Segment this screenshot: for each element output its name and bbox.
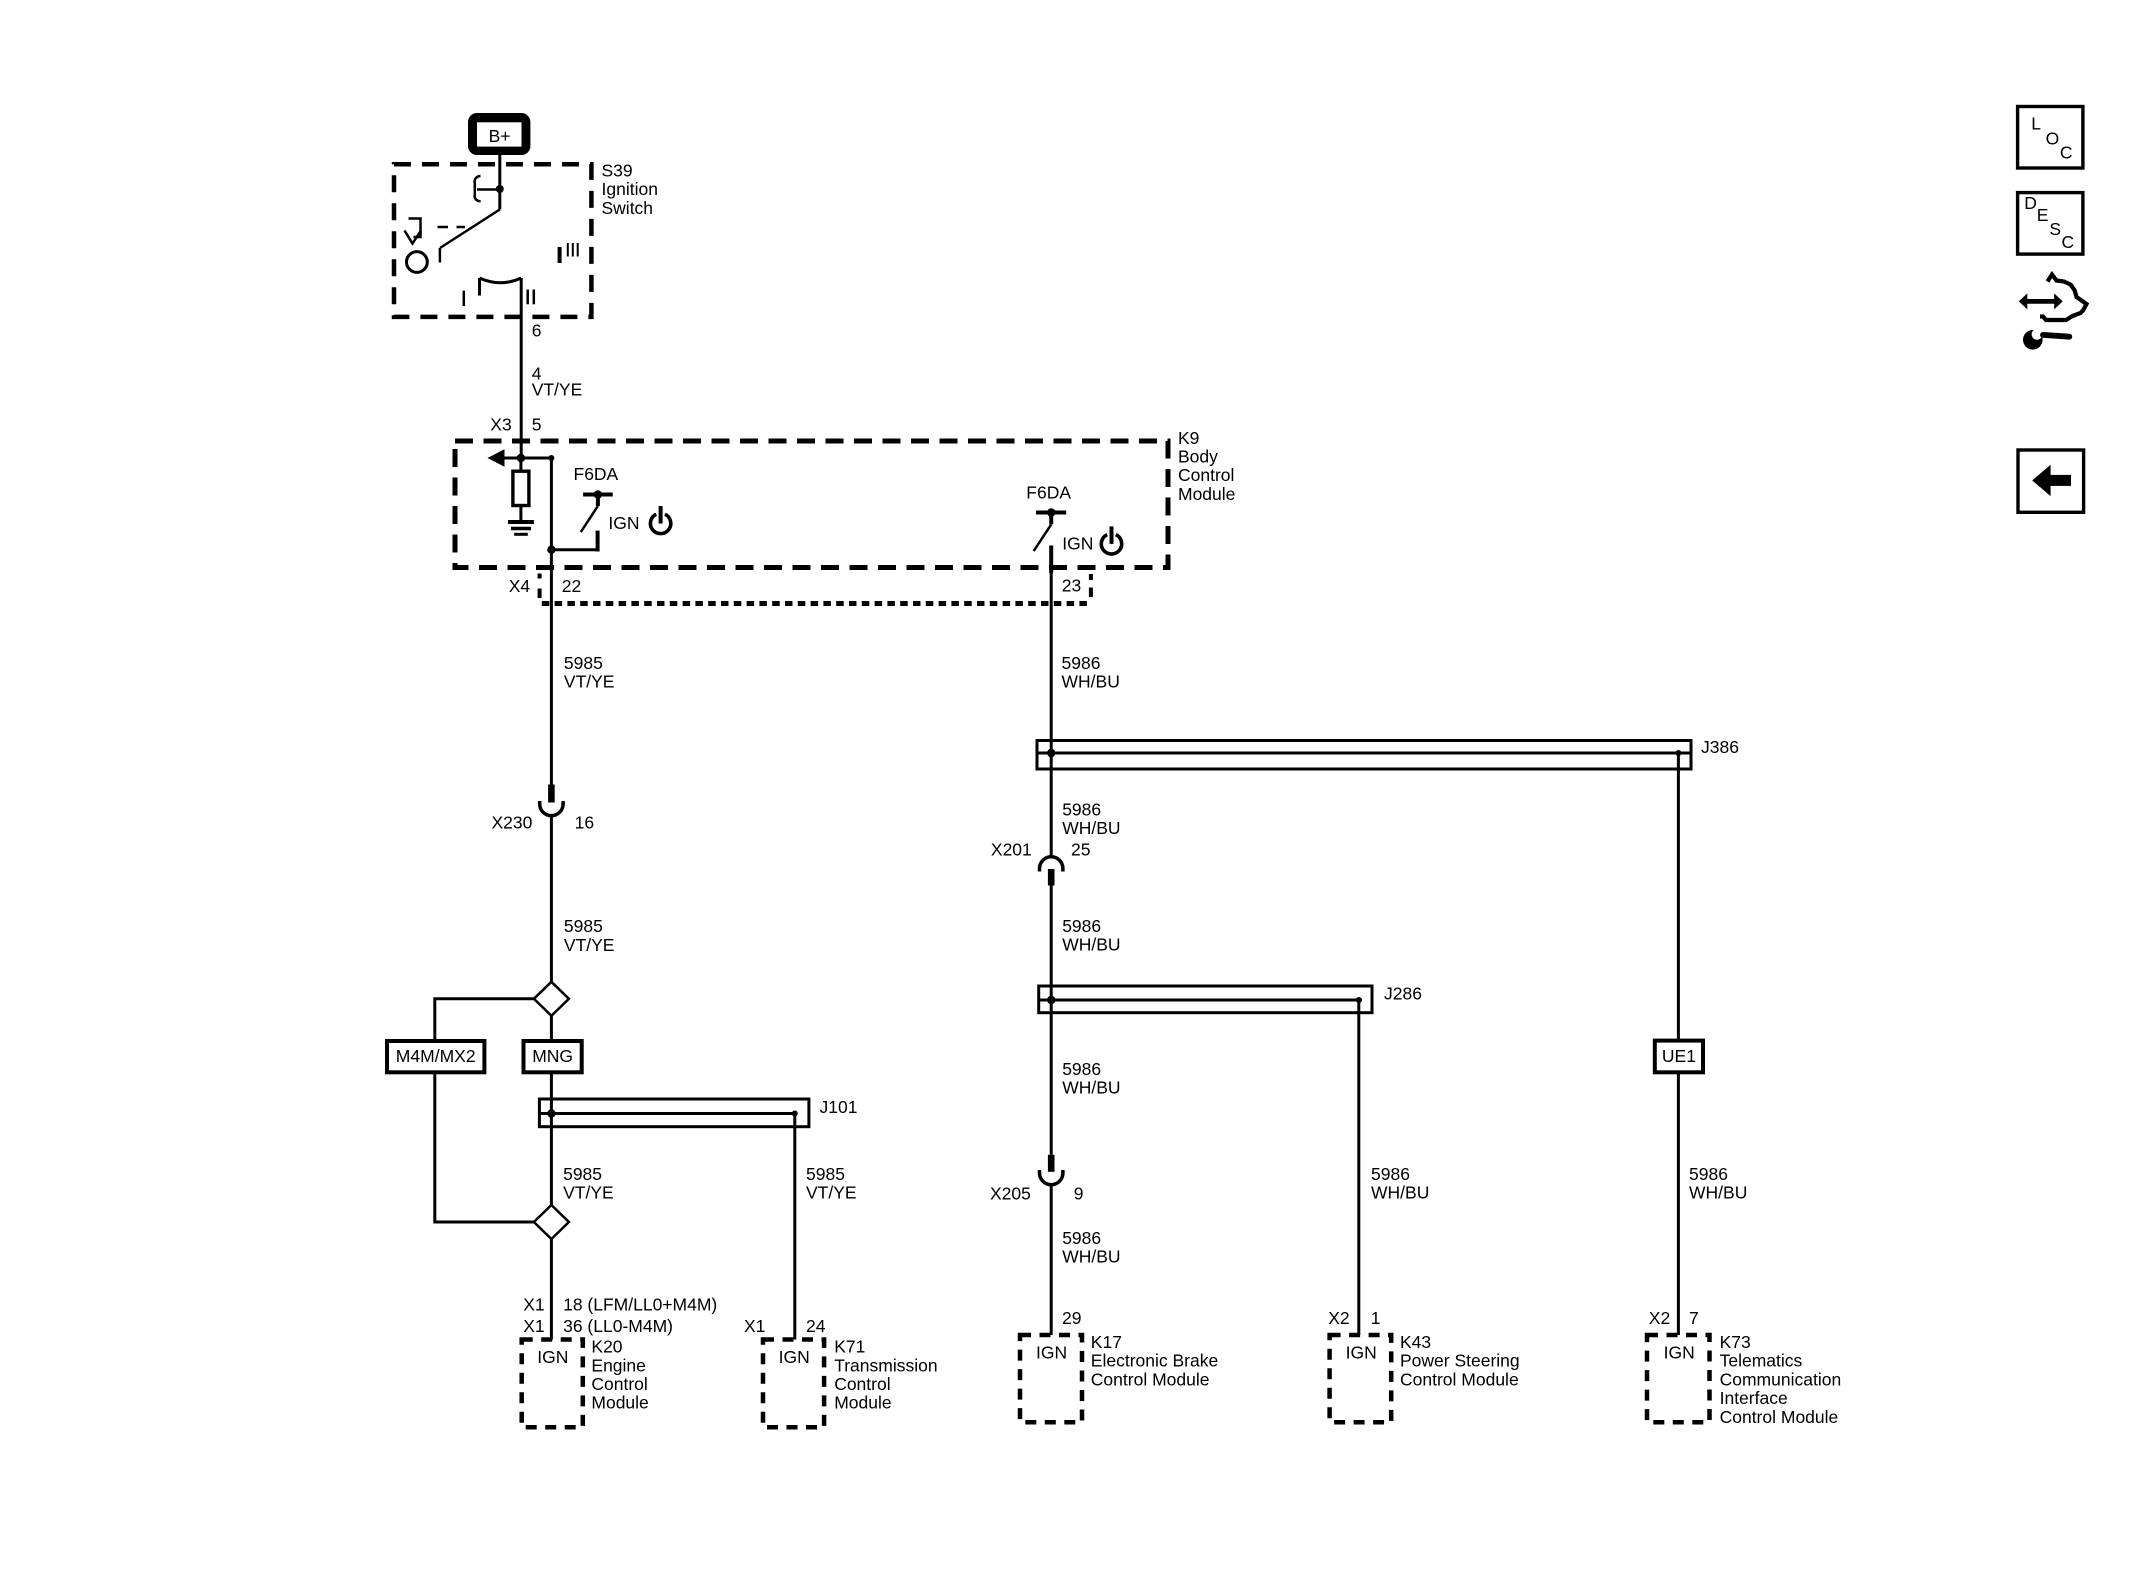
wire pin22 down to X230 [550,550,553,785]
svg-text:X4: X4 [509,576,531,596]
wire X230 down to splice diamond [550,816,553,982]
svg-text:23: 23 [1062,575,1081,595]
svg-text:5985: 5985 [564,653,603,673]
module K71 dashed box [763,1340,824,1428]
svg-text:WH/BU: WH/BU [1371,1183,1429,1203]
wire switch output pin 6 down to BCM [520,278,523,458]
DESC button [2018,193,2083,255]
option box M4M/MX2 [387,1041,484,1072]
svg-text:5986: 5986 [1062,1059,1101,1079]
S39 ignition switch dashed box [394,164,591,317]
wire M4M branch down to lower diamond [435,1072,534,1222]
svg-text:Control Module: Control Module [1091,1369,1210,1389]
svg-text:C: C [2060,143,2073,163]
K9 label [1178,428,1235,504]
wire lower diamond to K20 [550,1239,553,1340]
svg-text:UE1: UE1 [1662,1046,1696,1066]
svg-text:WH/BU: WH/BU [1062,935,1120,955]
K71 label block [834,1337,937,1413]
power icon right [1101,526,1121,554]
svg-text:Module: Module [591,1393,648,1413]
svg-text:M4M/MX2: M4M/MX2 [396,1046,476,1066]
resistor (BCM internal fuse element) [513,458,529,520]
wire J386 down to X201 [1050,753,1053,857]
option box UE1 [1655,1041,1703,1073]
wire diamond to M4M branch [435,999,534,1041]
svg-text:16: 16 [575,813,594,833]
switch S39 position mark II [528,290,534,305]
wire junction to internal corner [521,458,552,550]
svg-text:Communication: Communication [1720,1369,1842,1389]
svg-text:X1: X1 [523,1295,544,1315]
svg-text:X1: X1 [744,1316,765,1336]
svg-text:1: 1 [1371,1308,1381,1328]
wire to left F6DA switch [551,548,597,551]
svg-text:L: L [2031,114,2041,134]
svg-text:VT/YE: VT/YE [564,672,615,692]
K9 body control module dashed box [455,441,1168,568]
svg-text:IGN: IGN [1346,1343,1377,1363]
svg-text:29: 29 [1062,1308,1081,1328]
LOC button [2018,107,2083,169]
node BCM input junction [517,454,525,462]
svg-text:IGN: IGN [537,1347,568,1367]
svg-text:Telematics: Telematics [1720,1351,1803,1371]
svg-text:K43: K43 [1400,1332,1431,1352]
svg-text:E: E [2037,205,2049,225]
svg-text:5985: 5985 [564,916,603,936]
svg-text:B+: B+ [489,126,511,146]
svg-text:K9: K9 [1178,428,1199,448]
S39 label [602,160,658,217]
svg-text:Electronic Brake: Electronic Brake [1091,1351,1218,1371]
wire X205 down to K17 [1050,1185,1053,1335]
ground [508,522,534,534]
back button [2018,450,2084,512]
wire diamond to MNG box [550,1016,553,1041]
connector X4 strip [540,574,1091,604]
svg-text:D: D [2024,193,2037,213]
svg-text:Control Module: Control Module [1720,1407,1839,1427]
K43 label block [1400,1332,1520,1389]
svg-text:IGN: IGN [1062,534,1093,554]
svg-text:5985: 5985 [806,1164,845,1184]
svg-text:5: 5 [532,415,542,435]
bus bar J286 [1039,986,1372,1013]
svg-text:WH/BU: WH/BU [1689,1183,1747,1203]
svg-text:C: C [2062,232,2075,252]
svg-text:5986: 5986 [1062,916,1101,936]
svg-text:Interface: Interface [1720,1388,1788,1408]
wire UE1 down to K73 [1677,1072,1680,1335]
svg-text:Control: Control [591,1374,647,1394]
trace icon double arrow [2019,293,2063,309]
B+ power terminal [468,113,530,155]
svg-text:WH/BU: WH/BU [1062,818,1120,838]
svg-text:Ignition: Ignition [602,179,658,199]
svg-text:MNG: MNG [532,1046,573,1066]
svg-text:22: 22 [562,576,581,596]
svg-text:WH/BU: WH/BU [1062,672,1120,692]
wire J386 branch down to UE1 [1677,753,1680,1041]
svg-text:K20: K20 [591,1337,622,1357]
svg-text:WH/BU: WH/BU [1062,1078,1120,1098]
power icon left [650,506,670,534]
svg-text:Engine: Engine [591,1355,646,1375]
svg-text:F6DA: F6DA [1026,483,1071,503]
svg-text:5986: 5986 [1371,1164,1410,1184]
svg-text:S: S [2049,219,2061,239]
svg-text:Control: Control [1178,465,1234,485]
svg-text:Transmission: Transmission [834,1355,937,1375]
module K20 dashed box [522,1340,583,1428]
svg-text:5986: 5986 [1062,799,1101,819]
svg-text:IGN: IGN [779,1347,810,1367]
switch F6DA right (BCM internal) [1034,508,1067,573]
svg-text:IGN: IGN [1664,1343,1695,1363]
svg-text:X230: X230 [492,813,533,833]
switch S39 detent arc [480,278,522,296]
svg-text:J286: J286 [1384,984,1422,1004]
svg-text:X205: X205 [990,1183,1031,1203]
svg-text:5985: 5985 [563,1164,602,1184]
connector X205 inline [1040,1155,1063,1185]
splice diamond lower [534,1205,569,1239]
svg-text:Control: Control [834,1374,890,1394]
svg-text:F6DA: F6DA [574,464,619,484]
wire B+ to switch common [498,155,501,189]
svg-text:VT/YE: VT/YE [806,1183,857,1203]
switch S39 rotor circle [407,252,428,273]
option box MNG [524,1041,582,1072]
svg-text:5986: 5986 [1062,653,1101,673]
connector X230 inline [540,785,563,816]
splice diamond upper [534,982,569,1016]
K17 label block [1091,1332,1218,1389]
svg-text:K73: K73 [1720,1332,1751,1352]
svg-text:5986: 5986 [1689,1164,1728,1184]
svg-text:6: 6 [532,321,542,341]
svg-text:7: 7 [1689,1308,1699,1328]
svg-text:IGN: IGN [1036,1343,1067,1363]
svg-text:36 (LL0-M4M): 36 (LL0-M4M) [563,1316,673,1336]
node junction at pin 22 riser [547,546,555,554]
arrow continuation left [488,449,521,467]
svg-text:5986: 5986 [1062,1228,1101,1248]
svg-text:X2: X2 [1649,1308,1670,1328]
svg-text:24: 24 [806,1316,826,1336]
svg-text:Power Steering: Power Steering [1400,1351,1520,1371]
switch S39 movable blade [440,191,500,263]
module K43 dashed box [1330,1335,1392,1422]
svg-text:Body: Body [1178,447,1218,467]
wire X201 down through J286 to X205 [1050,886,1053,1155]
switch F6DA left (BCM internal) [581,490,613,551]
trace icon wrench [2023,329,2069,350]
svg-text:K17: K17 [1091,1332,1122,1352]
trace icon wire outline [2040,275,2087,321]
svg-text:Control Module: Control Module [1400,1369,1519,1389]
svg-text:O: O [2046,128,2060,148]
svg-text:J101: J101 [820,1097,858,1117]
wire J286 branch down to K43 [1357,1000,1360,1335]
svg-text:WH/BU: WH/BU [1062,1247,1120,1267]
svg-text:X2: X2 [1328,1308,1349,1328]
svg-text:K71: K71 [834,1337,865,1357]
svg-text:X1: X1 [523,1316,544,1336]
switch S39 position mark I [463,291,466,306]
module K17 dashed box [1020,1335,1082,1422]
K73 label block [1720,1332,1842,1427]
svg-text:Module: Module [1178,484,1235,504]
wire right F6DA down through pin 23 to J386 [1050,573,1053,753]
switch S39 park-position contact [405,219,466,244]
switch S39 position mark III [560,243,578,263]
K20 label block [591,1337,648,1413]
svg-text:X201: X201 [991,840,1032,860]
svg-text:X3: X3 [490,415,511,435]
svg-text:Module: Module [834,1393,891,1413]
svg-text:S39: S39 [602,160,633,180]
connector X201 inline [1040,857,1063,886]
switch S39 fixed contact [475,176,497,201]
svg-text:9: 9 [1074,1183,1084,1203]
svg-text:25: 25 [1071,840,1090,860]
bus bar J101 [539,1099,809,1127]
svg-text:18 (LFM/LL0+M4M): 18 (LFM/LL0+M4M) [563,1295,717,1315]
svg-text:VT/YE: VT/YE [564,935,615,955]
svg-text:IGN: IGN [608,513,639,533]
wire J101 branch down to K71 [793,1114,796,1340]
bus bar J386 [1037,741,1691,770]
node switch common junction [496,185,504,193]
svg-text:VT/YE: VT/YE [563,1183,614,1203]
module K73 dashed box [1647,1335,1710,1422]
svg-text:VT/YE: VT/YE [532,380,583,400]
svg-text:Switch: Switch [602,198,654,218]
svg-text:J386: J386 [1701,737,1739,757]
wire MNG down through J101 to lower diamond [550,1072,553,1205]
